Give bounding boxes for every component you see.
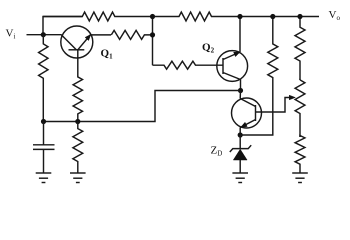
node C junction: [41, 119, 46, 124]
label ZD: [211, 145, 223, 158]
node Vi junction: [41, 32, 46, 37]
resistor R6 (node D to ground): [73, 122, 83, 174]
wire Q2 emitter drop: [240, 80, 242, 91]
ground (below C1): [36, 173, 52, 183]
label Q2: [202, 42, 215, 55]
resistor R7 (rail to node E): [240, 17, 278, 136]
wire Vi lead: [27, 34, 62, 36]
svg-text:Q2: Q2: [202, 42, 215, 55]
resistor R2 (Q1 to node A): [111, 30, 152, 39]
capacitor C1: [33, 145, 55, 173]
potentiometer RP body: [295, 80, 305, 137]
wire node B to left divider: [44, 91, 241, 122]
resistor R10 (top rail middle): [153, 12, 241, 21]
resistor R4 (Vi node down): [39, 35, 48, 122]
node A junction: [150, 32, 155, 37]
label Q1: [101, 48, 114, 61]
zener diode ZD: [230, 135, 251, 173]
wire Q3 emitter drop: [239, 128, 241, 136]
label Vo: [329, 9, 341, 22]
resistor R3 (to Q2 base): [153, 61, 224, 69]
node rail-Q2 junction: [237, 14, 242, 19]
ground (below ZD): [232, 173, 248, 183]
wire Q2 collector riser: [239, 17, 241, 53]
wire Q1 emitter lead: [91, 34, 111, 36]
svg-text:Vi: Vi: [6, 28, 16, 41]
label Vi: [6, 28, 16, 41]
transistor Q1: [61, 26, 93, 77]
svg-text:Vo: Vo: [329, 9, 341, 22]
svg-text:ZD: ZD: [211, 145, 223, 158]
node D junction: [75, 119, 80, 124]
node B junction (Q2 emitter): [238, 88, 243, 93]
wire node A vertical: [152, 17, 154, 66]
wire Q3 collector to node B: [239, 91, 241, 99]
svg-text:Q1: Q1: [101, 48, 114, 61]
ground (below R6): [70, 173, 86, 183]
transistor Q2: [217, 51, 248, 82]
node rail-R8 junction: [297, 14, 302, 19]
node E junction (zener top): [238, 132, 243, 137]
capacitor C1 top lead: [43, 122, 45, 145]
transistor Q3: [232, 98, 262, 128]
resistor R9 (lower fixed): [295, 136, 305, 174]
resistor R8 (upper fixed): [295, 17, 305, 81]
ground (below R9): [292, 173, 308, 183]
wire Q3 base to wiper: [256, 98, 290, 113]
node rail-R7 junction: [270, 14, 275, 19]
resistor R5 (Q1 base down): [73, 77, 82, 122]
wire top supply rail: [43, 17, 319, 35]
node rail-A junction: [150, 14, 155, 19]
resistor R1 (top rail left): [43, 12, 153, 21]
potentiometer wiper arrow: [289, 95, 295, 100]
